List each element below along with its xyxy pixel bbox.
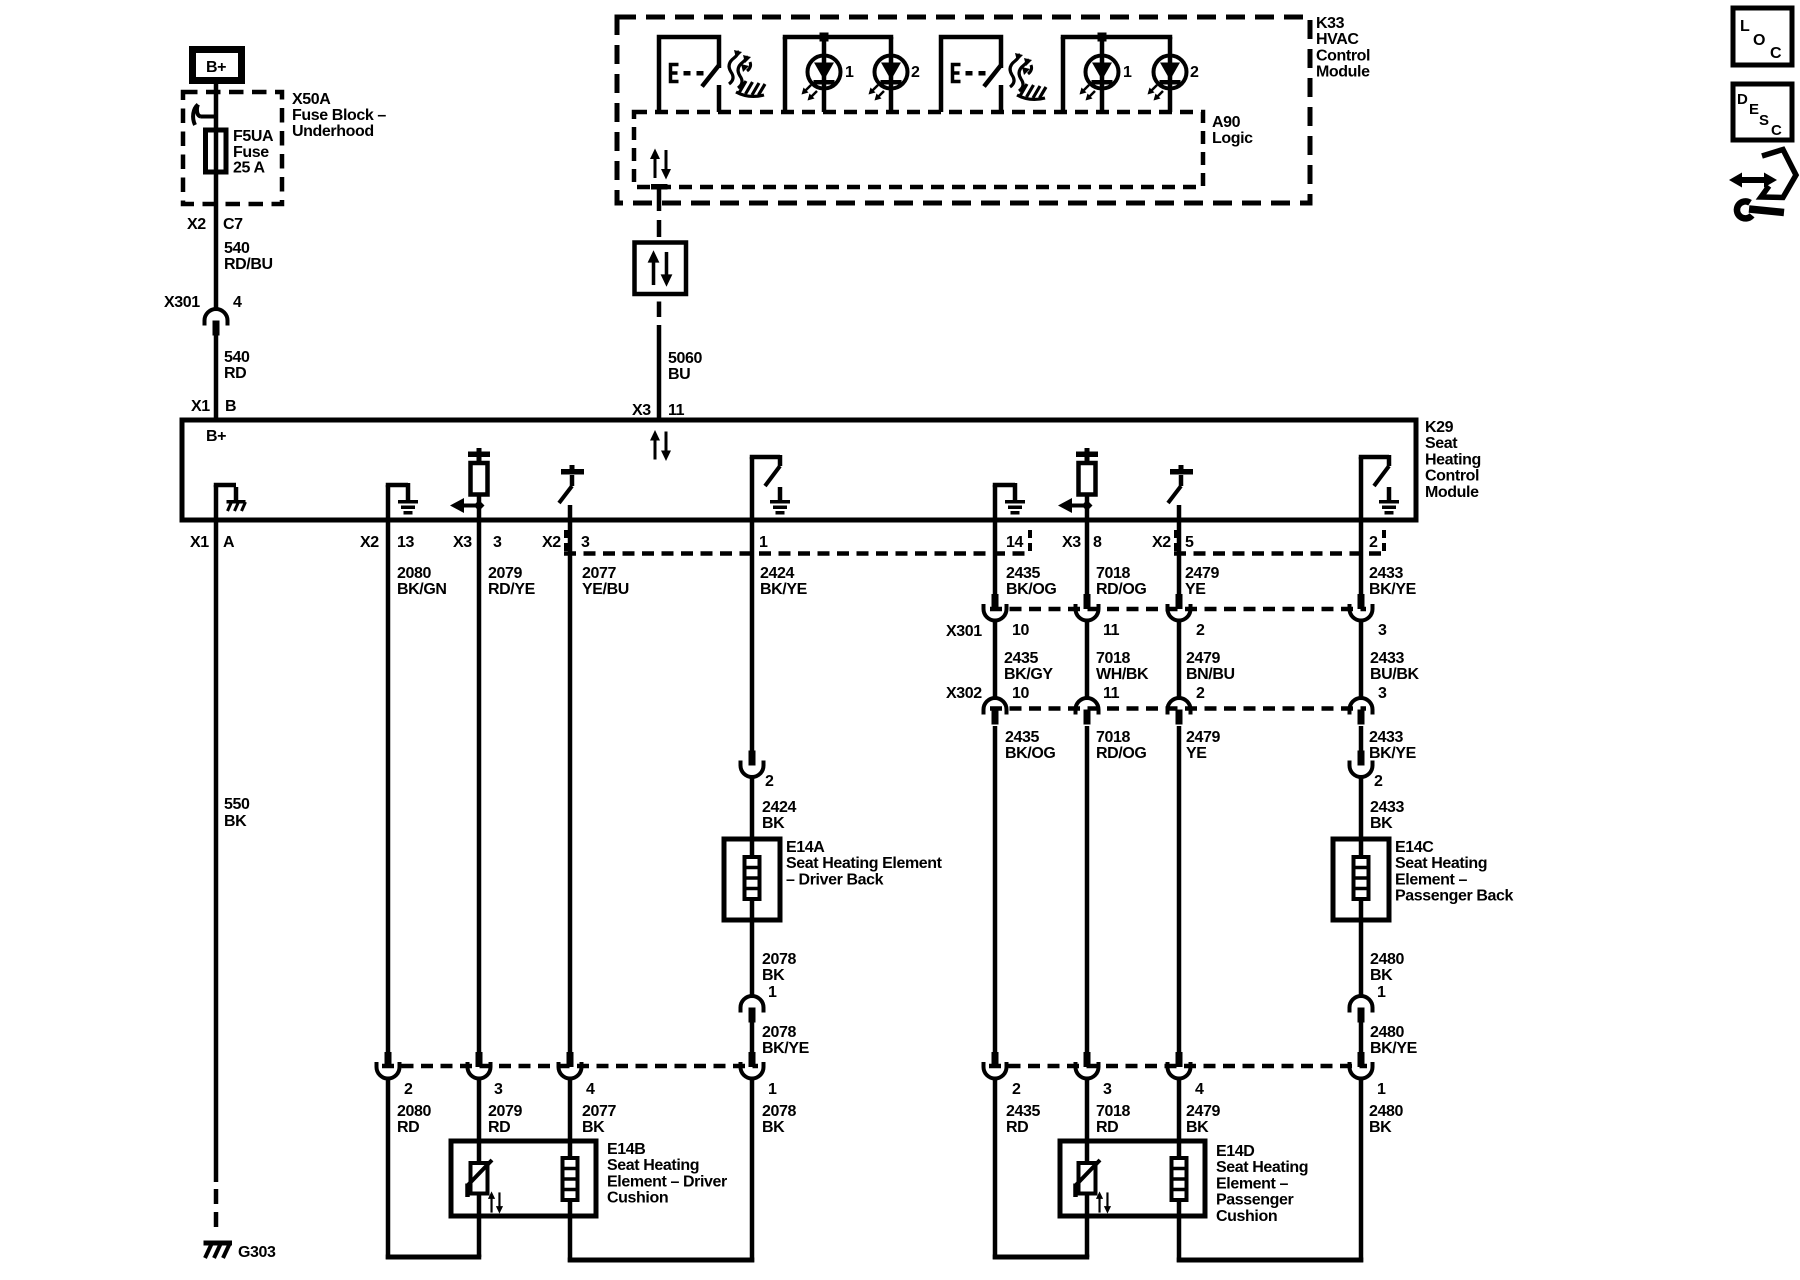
connector pin 1 (2078) (741, 1052, 764, 1079)
svg-text:14: 14 (1006, 534, 1023, 551)
svg-text:3: 3 (493, 534, 502, 551)
svg-text:YE/BU: YE/BU (582, 581, 629, 598)
ground G303 (204, 1241, 277, 1262)
X302 pin 2 (1168, 698, 1191, 725)
svg-text:X301: X301 (164, 294, 200, 311)
svg-text:BK: BK (1369, 1119, 1392, 1136)
wire 2433 BK/YE pin 2 (1359, 520, 1364, 595)
svg-text:Heating: Heating (1425, 451, 1481, 468)
svg-text:RD/OG: RD/OG (1096, 745, 1146, 762)
svg-text:Seat Heating Element: Seat Heating Element (786, 855, 943, 872)
dashed wire end at ground (214, 1189, 219, 1204)
svg-text:2435: 2435 (1006, 565, 1040, 582)
wire 2424 BK/YE pin 1 (750, 520, 755, 751)
svg-text:X2: X2 (360, 534, 379, 551)
label E14A (786, 839, 943, 888)
svg-text:11: 11 (1103, 685, 1120, 702)
svg-text:X50A: X50A (292, 91, 331, 108)
E14C heating element (1354, 857, 1369, 899)
wire 7018 RD (1085, 1078, 1090, 1163)
X302 pin 3 (1350, 698, 1373, 725)
svg-text:Cushion: Cushion (1216, 1208, 1277, 1225)
pin A internal chassis ground (214, 485, 246, 520)
wire 2480 BK lower (1359, 1078, 1364, 1262)
svg-text:2479: 2479 (1186, 1103, 1220, 1120)
svg-text:5060: 5060 (668, 350, 702, 367)
pin 13 internal ground (386, 483, 418, 520)
E14B sensor arrows (488, 1191, 503, 1213)
svg-text:10: 10 (1012, 622, 1029, 639)
svg-text:O: O (1753, 32, 1765, 49)
svg-text:2479: 2479 (1186, 729, 1220, 746)
wire 2480 BK/YE (1359, 1022, 1364, 1052)
svg-text:E14A: E14A (786, 839, 825, 856)
svg-text:E14D: E14D (1216, 1143, 1254, 1160)
svg-text:BK/GN: BK/GN (397, 581, 447, 598)
X301 pin 11 (1076, 594, 1099, 621)
wire 5060 BU to K29 pin 11 (657, 325, 662, 418)
indicator LED frame passenger (1061, 37, 1173, 112)
svg-text:11: 11 (1103, 622, 1120, 639)
svg-text:BK: BK (762, 1119, 785, 1136)
svg-text:BK/GY: BK/GY (1004, 666, 1053, 683)
harness connector row passenger dashed line (989, 1064, 1367, 1069)
switch S2 passenger seat heating (E-- switch) (941, 37, 1002, 112)
svg-text:BU: BU (668, 366, 690, 383)
connector pin 2 (2080) (377, 1052, 400, 1079)
harness connector row driver dashed line (382, 1064, 758, 1069)
K33 HVAC Control Module dashed box (617, 17, 1310, 203)
label A90 Logic (1212, 114, 1253, 147)
wire 2078 BK/YE (750, 1022, 755, 1052)
svg-text:Seat Heating: Seat Heating (1216, 1159, 1308, 1176)
svg-text:BK/YE: BK/YE (1369, 581, 1417, 598)
heated seat icon (driver) (729, 50, 765, 96)
svg-text:3: 3 (1103, 1081, 1112, 1098)
connector dashed tick at pin 14 (1028, 530, 1032, 552)
E14D thermistor (1076, 1160, 1101, 1197)
svg-text:D: D (1737, 91, 1748, 108)
svg-text:Fuse Block –: Fuse Block – (292, 107, 386, 124)
pin X2-5 internal switch (1168, 465, 1193, 520)
E14B heating element (563, 1158, 578, 1200)
wire 2077 BK (568, 1078, 573, 1158)
label E14D (1216, 1143, 1308, 1225)
pin X2-3 internal switch (559, 465, 584, 520)
wire 2435 BK/OG lower (993, 726, 998, 1052)
svg-text:E: E (1749, 101, 1759, 118)
svg-text:Passenger: Passenger (1216, 1192, 1294, 1209)
svg-text:C7: C7 (223, 216, 243, 233)
svg-text:2078: 2078 (762, 1024, 796, 1041)
connector pin 4 (2077) (559, 1052, 582, 1079)
in-line connector X301 pin 4 (205, 309, 228, 336)
pin 1 internal switch to ground (750, 455, 790, 520)
serial data arrows in A90 (650, 149, 671, 180)
svg-text:K33: K33 (1316, 15, 1345, 32)
svg-text:2433: 2433 (1369, 565, 1403, 582)
svg-text:Control: Control (1316, 47, 1370, 64)
wire 540 from B+ to fuse block (214, 84, 219, 308)
svg-text:C: C (1770, 45, 1782, 62)
pin labels below K29 (190, 534, 1378, 551)
svg-text:2: 2 (1012, 1081, 1021, 1098)
dashed serial data wire (657, 302, 662, 318)
svg-text:540: 540 (224, 240, 250, 257)
svg-text:X3: X3 (632, 402, 651, 419)
connector X301 dashed line (990, 607, 1366, 612)
svg-text:BK/YE: BK/YE (1369, 745, 1417, 762)
svg-text:Passenger Back: Passenger Back (1395, 888, 1514, 905)
svg-text:2: 2 (1196, 685, 1205, 702)
in-line connector 1 passenger back (1350, 996, 1373, 1023)
svg-text:RD: RD (224, 365, 246, 382)
svg-text:2433: 2433 (1370, 650, 1404, 667)
svg-text:2435: 2435 (1006, 1103, 1040, 1120)
wire 2078 BK (750, 1078, 755, 1262)
svg-text:RD/YE: RD/YE (488, 581, 536, 598)
svg-text:2424: 2424 (760, 565, 794, 582)
svg-text:2: 2 (1196, 622, 1205, 639)
svg-text:7018: 7018 (1096, 729, 1130, 746)
svg-text:BK: BK (1370, 967, 1393, 984)
svg-text:HVAC: HVAC (1316, 31, 1359, 48)
pin 2 internal switch to ground (1359, 455, 1399, 520)
element wire to loop (568, 1198, 573, 1262)
svg-text:X2: X2 (1152, 534, 1171, 551)
svg-text:2078: 2078 (762, 1103, 796, 1120)
svg-text:8: 8 (1093, 534, 1102, 551)
svg-text:X3: X3 (1062, 534, 1081, 551)
svg-text:RD: RD (1006, 1119, 1028, 1136)
wire 2435 BK/OG pin 14 (993, 520, 998, 595)
svg-text:A: A (223, 534, 235, 551)
connector pin 3 (7018) (1076, 1052, 1099, 1079)
switch S1 driver seat heating (E-- switch) (659, 37, 720, 112)
E14B Seat Heating Element Driver Cushion box (451, 1141, 596, 1216)
svg-text:Element –: Element – (1395, 871, 1467, 888)
svg-text:2077: 2077 (582, 1103, 616, 1120)
E14D Seat Heating Element Passenger Cushion box (1060, 1141, 1205, 1216)
svg-text:Seat: Seat (1425, 435, 1458, 452)
svg-text:2480: 2480 (1370, 1024, 1404, 1041)
indicator LED frame driver (783, 37, 894, 112)
X301 pin 2 (1168, 594, 1191, 621)
wire 2077 YE/BU pin X2-3 (568, 520, 573, 1052)
svg-text:B: B (225, 398, 236, 415)
pin X3-3 internal sensor resistor (468, 448, 490, 495)
svg-text:Fuse: Fuse (233, 144, 269, 161)
wire 2433 BK/YE lower (1359, 726, 1364, 751)
svg-text:2433: 2433 (1370, 799, 1404, 816)
E14B thermistor (468, 1160, 493, 1197)
svg-text:7018: 7018 (1096, 650, 1130, 667)
wire 2479 YE lower (1177, 726, 1182, 1052)
diagnostic navigation icon (arrows and wrench) (1729, 150, 1796, 221)
E14D heating element (1172, 1158, 1187, 1200)
input arrow pin X3-8 (1058, 498, 1093, 513)
connector X302 dashed line (990, 706, 1366, 711)
svg-text:2435: 2435 (1005, 729, 1039, 746)
svg-text:BK/OG: BK/OG (1005, 745, 1055, 762)
svg-text:540: 540 (224, 349, 250, 366)
svg-text:2078: 2078 (762, 951, 796, 968)
svg-text:G303: G303 (238, 1244, 276, 1261)
wire 2479 YE pin X2-5 (1177, 520, 1182, 595)
svg-text:X3: X3 (453, 534, 472, 551)
svg-text:S: S (1759, 112, 1769, 129)
wire 2079 RD/YE pin X3-3 (477, 520, 482, 1052)
svg-text:2: 2 (1374, 773, 1383, 790)
label E14C (1395, 839, 1514, 905)
svg-text:RD/OG: RD/OG (1096, 581, 1146, 598)
fuse block X50A dashed box (183, 92, 282, 204)
svg-text:– Driver Back: – Driver Back (786, 871, 884, 888)
svg-text:C: C (1771, 122, 1782, 139)
svg-text:Module: Module (1425, 484, 1479, 501)
A90 Logic dashed box (634, 112, 1203, 187)
wire 2424 BK (750, 777, 755, 857)
label X50A Fuse Block Underhood (292, 91, 386, 140)
svg-text:2079: 2079 (488, 565, 522, 582)
svg-text:BN/BU: BN/BU (1186, 666, 1235, 683)
svg-text:25 A: 25 A (233, 160, 265, 177)
X301 pin 3 (1350, 594, 1373, 621)
LED 2 driver (869, 56, 908, 101)
svg-text:10: 10 (1012, 685, 1029, 702)
driver cushion loop wire left (386, 1255, 482, 1260)
label K33 HVAC Control Module (1316, 15, 1370, 81)
label E14B (607, 1141, 727, 1207)
label K29 Seat Heating Control Module (1425, 419, 1481, 501)
wire 2435 BK/GY (993, 620, 998, 698)
in-line connector 2 driver back (741, 751, 764, 778)
pin X3-8 internal sensor resistor (1076, 448, 1098, 495)
svg-text:2080: 2080 (397, 565, 431, 582)
connector dashed line left (564, 551, 1032, 556)
svg-text:Control: Control (1425, 468, 1479, 485)
svg-text:3: 3 (581, 534, 590, 551)
svg-text:F5UA: F5UA (233, 128, 274, 145)
wire 7018 RD/OG pin X3-8 (1085, 520, 1090, 595)
svg-text:BK: BK (224, 813, 247, 830)
svg-text:3: 3 (1378, 622, 1387, 639)
wire 7018 WH/BK (1085, 620, 1090, 698)
LED 1 driver (802, 56, 841, 101)
wire 2080 BK/GN pin 13 (386, 520, 391, 1052)
svg-text:RD/BU: RD/BU (224, 256, 273, 273)
svg-text:3: 3 (494, 1081, 503, 1098)
connector dashed tick at pin 2 (1382, 530, 1386, 552)
svg-text:BK/OG: BK/OG (1006, 581, 1056, 598)
passenger cushion loop wire left (993, 1255, 1090, 1260)
svg-text:1: 1 (768, 984, 777, 1001)
wire 540 RD to K29 pin B (214, 335, 219, 418)
E14A heating element (745, 857, 760, 899)
wire 2080 RD (386, 1078, 391, 1259)
svg-text:2079: 2079 (488, 1103, 522, 1120)
svg-text:2433: 2433 (1369, 729, 1403, 746)
wire 2435 RD (993, 1078, 998, 1259)
svg-text:2479: 2479 (1186, 650, 1220, 667)
svg-text:Module: Module (1316, 64, 1370, 81)
svg-text:X302: X302 (946, 685, 982, 702)
svg-text:4: 4 (1195, 1081, 1204, 1098)
input arrow pin X3-3 (450, 498, 485, 513)
svg-text:2480: 2480 (1369, 1103, 1403, 1120)
svg-text:2424: 2424 (762, 799, 796, 816)
wire through thermistor to loop (477, 1194, 482, 1258)
svg-text:2480: 2480 (1370, 951, 1404, 968)
svg-text:Seat Heating: Seat Heating (1395, 855, 1487, 872)
E14D sensor arrows (1096, 1191, 1111, 1213)
svg-text:1: 1 (1377, 1081, 1386, 1098)
svg-text:550: 550 (224, 796, 250, 813)
svg-text:11: 11 (668, 402, 685, 419)
connector pin 4 (2479) (1168, 1052, 1191, 1079)
connector X2 dashed tick at pin 3 (564, 530, 568, 552)
svg-text:Underhood: Underhood (292, 123, 374, 140)
svg-text:7018: 7018 (1096, 1103, 1130, 1120)
wire 2078 BK below E14A (750, 899, 755, 995)
svg-text:1: 1 (768, 1081, 777, 1098)
svg-text:Cushion: Cushion (607, 1190, 668, 1207)
connector pin 3 (2079) (468, 1052, 491, 1079)
in-line connector 2 passenger back (1350, 751, 1373, 778)
svg-text:1: 1 (759, 534, 768, 551)
wire 2480 BK below E14C (1359, 899, 1364, 995)
X302 pin 11 (1076, 698, 1099, 725)
serial data arrows at pin 11 inside K29 (650, 430, 671, 461)
svg-text:Seat Heating: Seat Heating (607, 1157, 699, 1174)
LED 2 passenger (1148, 56, 1187, 101)
battery positive voltage B+ symbol (193, 50, 242, 81)
svg-text:13: 13 (397, 534, 414, 551)
svg-text:B+: B+ (206, 59, 226, 76)
svg-text:BK/YE: BK/YE (1370, 1040, 1418, 1057)
svg-text:K29: K29 (1425, 419, 1454, 436)
in-line connector 1 driver back (741, 996, 764, 1023)
svg-text:X1: X1 (190, 534, 209, 551)
driver cushion loop wire right (568, 1258, 755, 1263)
svg-text:B+: B+ (206, 428, 226, 445)
dashed serial data wire (657, 220, 662, 237)
wire 2479 BN/BU (1177, 620, 1182, 698)
svg-text:RD: RD (397, 1119, 419, 1136)
svg-text:3: 3 (1378, 685, 1387, 702)
svg-text:X2: X2 (187, 216, 206, 233)
svg-text:1: 1 (1377, 984, 1386, 1001)
A90 output stub (651, 184, 668, 190)
heated seat icon (passenger) (1010, 53, 1046, 99)
svg-text:X2: X2 (542, 534, 561, 551)
svg-text:L: L (1740, 18, 1750, 35)
svg-text:4: 4 (233, 294, 242, 311)
wire 550 BK from K29 pin A toward G303 (214, 520, 219, 1182)
svg-text:2: 2 (765, 773, 774, 790)
connector pin 2 (2435) (984, 1052, 1007, 1079)
junction dot (1098, 33, 1107, 42)
passenger cushion loop wire right (1177, 1258, 1364, 1263)
E14A Seat Heating Element Driver Back box (724, 839, 780, 920)
svg-text:2: 2 (911, 64, 920, 81)
svg-text:1: 1 (845, 64, 854, 81)
element wire to loop (1177, 1198, 1182, 1262)
svg-text:BU/BK: BU/BK (1370, 666, 1420, 683)
fuse holder terminal hook (193, 105, 216, 126)
X301 pin 10 (984, 594, 1007, 621)
svg-text:2: 2 (404, 1081, 413, 1098)
svg-text:E14B: E14B (607, 1141, 645, 1158)
X302 pin 10 (984, 698, 1007, 725)
svg-text:X1: X1 (191, 398, 210, 415)
svg-text:2077: 2077 (582, 565, 616, 582)
fuse F5UA 25 A (206, 130, 227, 172)
svg-text:BK: BK (1370, 815, 1393, 832)
wire 2433 BK (1359, 777, 1364, 857)
svg-text:2: 2 (1369, 534, 1378, 551)
svg-text:WH/BK: WH/BK (1096, 666, 1149, 683)
wire through thermistor to loop (1085, 1194, 1090, 1258)
svg-text:BK: BK (1186, 1119, 1209, 1136)
LED 1 passenger (1080, 56, 1119, 101)
svg-text:5: 5 (1185, 534, 1194, 551)
K29 Seat Heating Control Module box (182, 420, 1416, 520)
svg-text:BK: BK (582, 1119, 605, 1136)
connector X2 dashed tick at pin 5 (1174, 530, 1178, 552)
svg-text:BK/YE: BK/YE (762, 1040, 810, 1057)
svg-text:2479: 2479 (1185, 565, 1219, 582)
svg-text:Logic: Logic (1212, 130, 1253, 147)
svg-text:YE: YE (1185, 581, 1206, 598)
junction dot (820, 33, 829, 42)
LOC reference icon (1733, 8, 1792, 65)
wire 2479 BK (1177, 1078, 1182, 1158)
connector dashed line right (1174, 551, 1386, 556)
wire 2079 RD (477, 1078, 482, 1163)
svg-text:1: 1 (1123, 64, 1132, 81)
svg-text:BK: BK (762, 967, 785, 984)
svg-text:E14C: E14C (1395, 839, 1434, 856)
svg-text:A90: A90 (1212, 114, 1241, 131)
svg-text:2: 2 (1190, 64, 1199, 81)
connector pin 1 (2480) (1350, 1052, 1373, 1079)
serial data link symbol (635, 243, 687, 295)
svg-text:2435: 2435 (1004, 650, 1038, 667)
svg-text:RD: RD (488, 1119, 510, 1136)
DESC reference icon (1733, 84, 1792, 140)
svg-text:X301: X301 (946, 623, 982, 640)
svg-text:Element –: Element – (1216, 1175, 1288, 1192)
svg-text:2080: 2080 (397, 1103, 431, 1120)
svg-text:4: 4 (586, 1081, 595, 1098)
wire 2433 BU/BK (1359, 620, 1364, 698)
svg-text:7018: 7018 (1096, 565, 1130, 582)
pin 14 internal ground (993, 483, 1025, 520)
E14C Seat Heating Element Passenger Back box (1333, 839, 1389, 920)
svg-text:RD: RD (1096, 1119, 1118, 1136)
svg-text:YE: YE (1186, 745, 1207, 762)
svg-text:Element – Driver: Element – Driver (607, 1173, 727, 1190)
wire 7018 RD/OG lower (1085, 726, 1090, 1052)
svg-text:BK/YE: BK/YE (760, 581, 808, 598)
svg-text:BK: BK (762, 815, 785, 832)
